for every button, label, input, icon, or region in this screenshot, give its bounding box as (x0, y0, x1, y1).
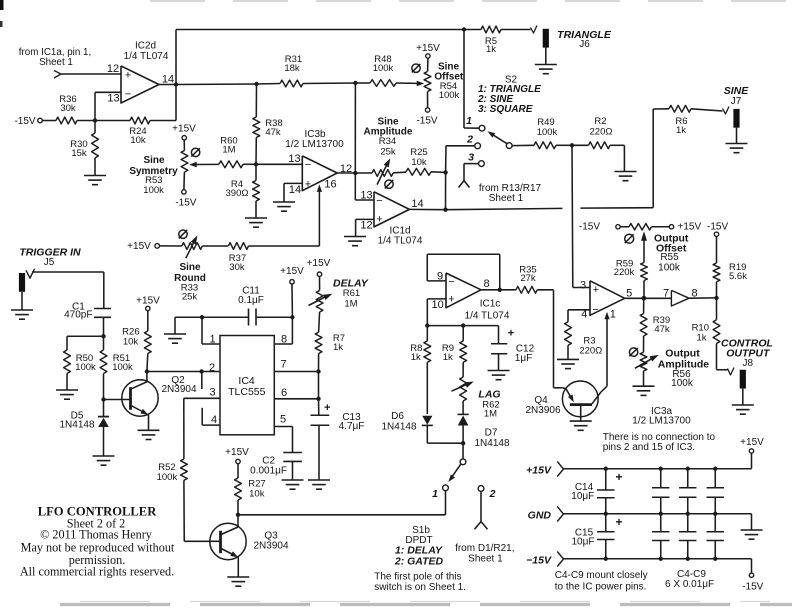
svg-text:IC2d: IC2d (135, 41, 156, 52)
svg-text:1μF: 1μF (515, 353, 532, 364)
svg-text:10k: 10k (411, 157, 427, 168)
svg-text:30k: 30k (60, 103, 76, 114)
svg-text:1M: 1M (222, 144, 235, 155)
svg-text:1: 1 (610, 308, 616, 320)
svg-text:1k: 1k (676, 125, 686, 136)
svg-text:220Ω: 220Ω (590, 126, 613, 137)
svg-text:10k: 10k (130, 135, 146, 146)
svg-text:+15V: +15V (172, 124, 196, 135)
svg-text:Sheet 1: Sheet 1 (468, 554, 503, 565)
svg-text:+: + (615, 470, 622, 484)
svg-text:100k: 100k (112, 362, 133, 373)
svg-text:+15V: +15V (225, 447, 249, 458)
svg-text:1: 1 (432, 488, 438, 500)
svg-text:1/4 TL074: 1/4 TL074 (465, 310, 510, 321)
svg-text:10μF: 10μF (572, 537, 595, 548)
svg-text:−: − (125, 88, 131, 100)
svg-text:12: 12 (360, 219, 372, 231)
svg-text:25k: 25k (182, 291, 198, 302)
svg-text:100k: 100k (373, 63, 394, 74)
svg-text:1: DELAY: 1: DELAY (395, 544, 443, 556)
svg-text:16: 16 (324, 178, 336, 190)
svg-text:D7: D7 (485, 428, 498, 439)
svg-text:+: + (305, 178, 311, 190)
svg-text:+15V: +15V (136, 296, 160, 307)
svg-text:13: 13 (360, 189, 372, 201)
svg-text:−: − (448, 276, 454, 288)
svg-text:470pF: 470pF (64, 310, 92, 321)
svg-text:1M: 1M (484, 408, 497, 419)
svg-text:8: 8 (484, 278, 490, 290)
svg-text:+: + (615, 515, 622, 529)
svg-text:Sheet 1: Sheet 1 (489, 193, 524, 204)
svg-text:1k: 1k (333, 342, 343, 353)
svg-text:+: + (125, 69, 131, 81)
svg-text:25k: 25k (380, 146, 396, 157)
svg-text:+15V: +15V (416, 43, 440, 54)
svg-text:5.6k: 5.6k (729, 271, 747, 282)
svg-text:J5: J5 (44, 257, 55, 268)
svg-text:10k: 10k (249, 488, 265, 499)
svg-text:100k: 100k (658, 262, 681, 273)
svg-text:IC1c: IC1c (480, 299, 501, 310)
svg-text:14: 14 (411, 198, 423, 210)
svg-text:+15V: +15V (678, 222, 702, 233)
svg-text:4.7μF: 4.7μF (339, 421, 365, 432)
svg-text:+15V: +15V (740, 437, 764, 448)
svg-text:switch is on Sheet 1.: switch is on Sheet 1. (374, 582, 466, 593)
svg-text:18k: 18k (284, 63, 300, 74)
svg-text:+: + (448, 293, 454, 305)
svg-text:+: + (593, 284, 599, 296)
svg-text:1k: 1k (696, 333, 706, 344)
svg-text:1/2 LM13700: 1/2 LM13700 (285, 139, 344, 150)
svg-text:15k: 15k (71, 148, 87, 159)
svg-text:1: 1 (466, 115, 472, 127)
svg-text:12: 12 (340, 163, 352, 175)
svg-text:−: − (305, 159, 311, 171)
svg-text:10μF: 10μF (571, 491, 594, 502)
svg-text:2N3904: 2N3904 (161, 384, 196, 395)
svg-text:+: + (324, 402, 330, 414)
svg-text:+15V: +15V (307, 258, 331, 269)
svg-text:0.001μF: 0.001μF (250, 465, 287, 476)
svg-text:0.1μF: 0.1μF (238, 295, 264, 306)
svg-text:+15V: +15V (526, 464, 552, 476)
svg-text:2: 2 (489, 488, 496, 500)
svg-text:14: 14 (162, 73, 174, 85)
svg-text:1/4 TL074: 1/4 TL074 (378, 235, 423, 246)
svg-text:+15V: +15V (127, 241, 151, 252)
svg-text:1/2 LM13700: 1/2 LM13700 (632, 415, 691, 426)
svg-text:−: − (592, 304, 598, 316)
svg-text:5: 5 (626, 287, 632, 299)
svg-text:C4-C9 mount closely: C4-C9 mount closely (555, 570, 648, 581)
svg-text:pins 2 and 15 of IC3.: pins 2 and 15 of IC3. (603, 442, 695, 453)
svg-text:3: SQUARE: 3: SQUARE (478, 104, 533, 115)
svg-text:12: 12 (107, 63, 119, 75)
svg-text:2N3906: 2N3906 (525, 405, 560, 416)
svg-text:47k: 47k (265, 127, 281, 138)
svg-text:390Ω: 390Ω (226, 188, 249, 199)
svg-text:−15V: −15V (526, 554, 552, 566)
svg-text:13: 13 (288, 153, 300, 165)
svg-text:100k: 100k (157, 472, 178, 483)
svg-text:-15V: -15V (14, 116, 35, 127)
svg-text:5: 5 (280, 413, 286, 425)
svg-text:3: 3 (210, 386, 216, 398)
svg-text:100k: 100k (143, 185, 164, 196)
svg-text:100k: 100k (537, 127, 558, 138)
svg-text:1k: 1k (486, 44, 496, 55)
svg-text:2: 2 (209, 362, 215, 374)
svg-text:10: 10 (431, 299, 443, 311)
svg-text:+: + (508, 328, 514, 340)
svg-text:GND: GND (528, 509, 552, 521)
svg-text:+15V: +15V (280, 266, 304, 277)
svg-text:2: 2 (466, 134, 473, 146)
svg-text:3: 3 (580, 279, 586, 291)
svg-text:220k: 220k (614, 267, 635, 278)
svg-text:1N4148: 1N4148 (59, 419, 94, 430)
svg-text:Sine: Sine (143, 155, 165, 166)
svg-text:7: 7 (663, 287, 669, 299)
svg-text:1k: 1k (411, 352, 421, 363)
svg-text:100k: 100k (671, 378, 694, 389)
svg-text:J7: J7 (731, 96, 742, 107)
svg-text:1M: 1M (344, 298, 357, 309)
svg-text:-15V: -15V (707, 222, 728, 233)
svg-text:6 X 0.01μF: 6 X 0.01μF (665, 579, 714, 590)
svg-text:R2: R2 (594, 116, 606, 127)
svg-text:2: GATED: 2: GATED (394, 556, 444, 568)
svg-text:14: 14 (289, 184, 301, 196)
svg-text:30k: 30k (229, 262, 245, 273)
svg-text:R34: R34 (379, 136, 396, 147)
svg-text:−: − (376, 195, 382, 207)
svg-text:from D1/R21,: from D1/R21, (455, 543, 514, 554)
svg-text:47k: 47k (654, 324, 670, 335)
svg-text:-15V: -15V (416, 116, 437, 127)
svg-text:1N4148: 1N4148 (474, 438, 509, 449)
svg-text:R55: R55 (660, 252, 679, 263)
svg-text:TLC555: TLC555 (228, 386, 266, 398)
svg-text:-15V: -15V (742, 581, 763, 592)
svg-text:6: 6 (281, 387, 287, 399)
svg-text:3: 3 (468, 152, 474, 164)
svg-text:-15V: -15V (175, 198, 196, 209)
svg-text:J6: J6 (579, 39, 590, 50)
svg-text:1/4 TL074: 1/4 TL074 (124, 51, 169, 62)
svg-text:7: 7 (281, 358, 287, 370)
svg-text:10k: 10k (123, 336, 139, 347)
svg-text:Sine: Sine (179, 262, 201, 273)
svg-text:1N4148: 1N4148 (381, 421, 416, 432)
svg-text:1k: 1k (443, 352, 453, 363)
svg-text:+: + (376, 213, 382, 225)
svg-text:220Ω: 220Ω (579, 345, 602, 356)
svg-text:-15V: -15V (579, 222, 600, 233)
svg-text:27k: 27k (520, 273, 536, 284)
svg-text:100k: 100k (75, 362, 96, 373)
svg-text:100k: 100k (439, 90, 460, 101)
svg-text:13: 13 (107, 92, 119, 104)
svg-text:to the IC power pins.: to the IC power pins. (555, 581, 647, 592)
svg-text:2N3904: 2N3904 (253, 541, 288, 552)
svg-text:All commercial rights reserved: All commercial rights reserved. (20, 564, 174, 578)
svg-text:J8: J8 (743, 358, 754, 369)
svg-text:Sheet 1: Sheet 1 (39, 57, 73, 68)
